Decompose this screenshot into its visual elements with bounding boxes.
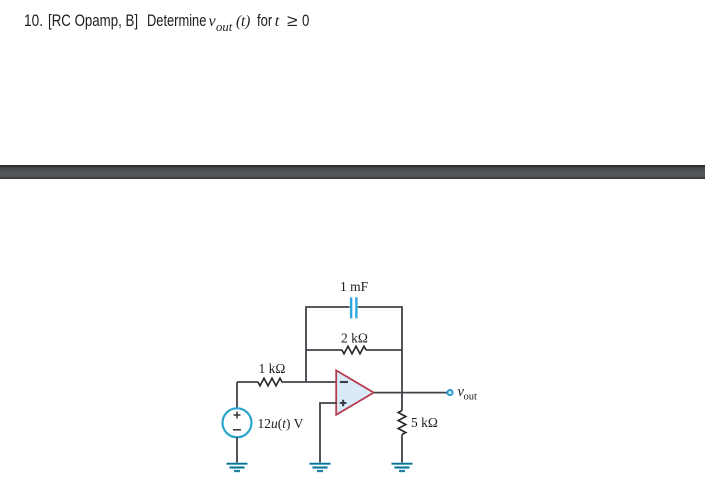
wire: right vertical from 2k node down to 5k resistor (401, 350, 403, 411)
wire: 2k ohm feedback wire right (366, 349, 402, 351)
ground (below source) (227, 464, 248, 471)
resistor R3 5 kOhm zigzag (vertical) (398, 411, 406, 435)
wire: feedback loop left vertical (inverting node up to capacitor) (306, 307, 350, 382)
capacitor C1 1 mF plates (350, 297, 352, 318)
voltage source V1 circle (223, 408, 252, 437)
op-amp U1 triangle (336, 370, 374, 414)
wire: 2k ohm feedback wire left (306, 349, 342, 351)
resistor R1 1 kOhm zigzag (258, 378, 282, 386)
wire: 5k resistor bottom lead (401, 435, 403, 464)
ground (below 5k resistor) (392, 464, 413, 471)
svg-text:1 mF: 1 mF (340, 279, 369, 294)
voltage source minus sign (233, 429, 241, 431)
wire: non-inverting input wire (320, 403, 337, 463)
dark divider bar (0, 165, 705, 179)
svg-text:5 kΩ: 5 kΩ (411, 415, 438, 430)
resistor R2 2 kOhm zigzag (342, 346, 366, 354)
wire: source top lead (236, 382, 238, 408)
svg-text:out: out (464, 392, 478, 403)
svg-text:1 kΩ: 1 kΩ (259, 361, 286, 376)
op-amp minus input symbol (340, 381, 348, 383)
svg-text:2 kΩ: 2 kΩ (341, 331, 368, 346)
wire: input wire right segment to op-amp inverting input (282, 381, 337, 383)
wire: input wire with 1k resistor, left segment (237, 381, 258, 383)
wire: capacitor top right segment (358, 307, 402, 350)
wire: source bottom lead (236, 437, 238, 463)
output terminal node vout (447, 390, 452, 395)
ground (below non-inverting input) (310, 464, 331, 471)
problem title text (0, 0, 705, 1)
op-amp plus input symbol (340, 400, 347, 407)
voltage source plus sign (234, 412, 241, 419)
svg-text:12u(t) V: 12u(t) V (258, 416, 304, 431)
wire: op-amp output to terminal (374, 392, 447, 394)
